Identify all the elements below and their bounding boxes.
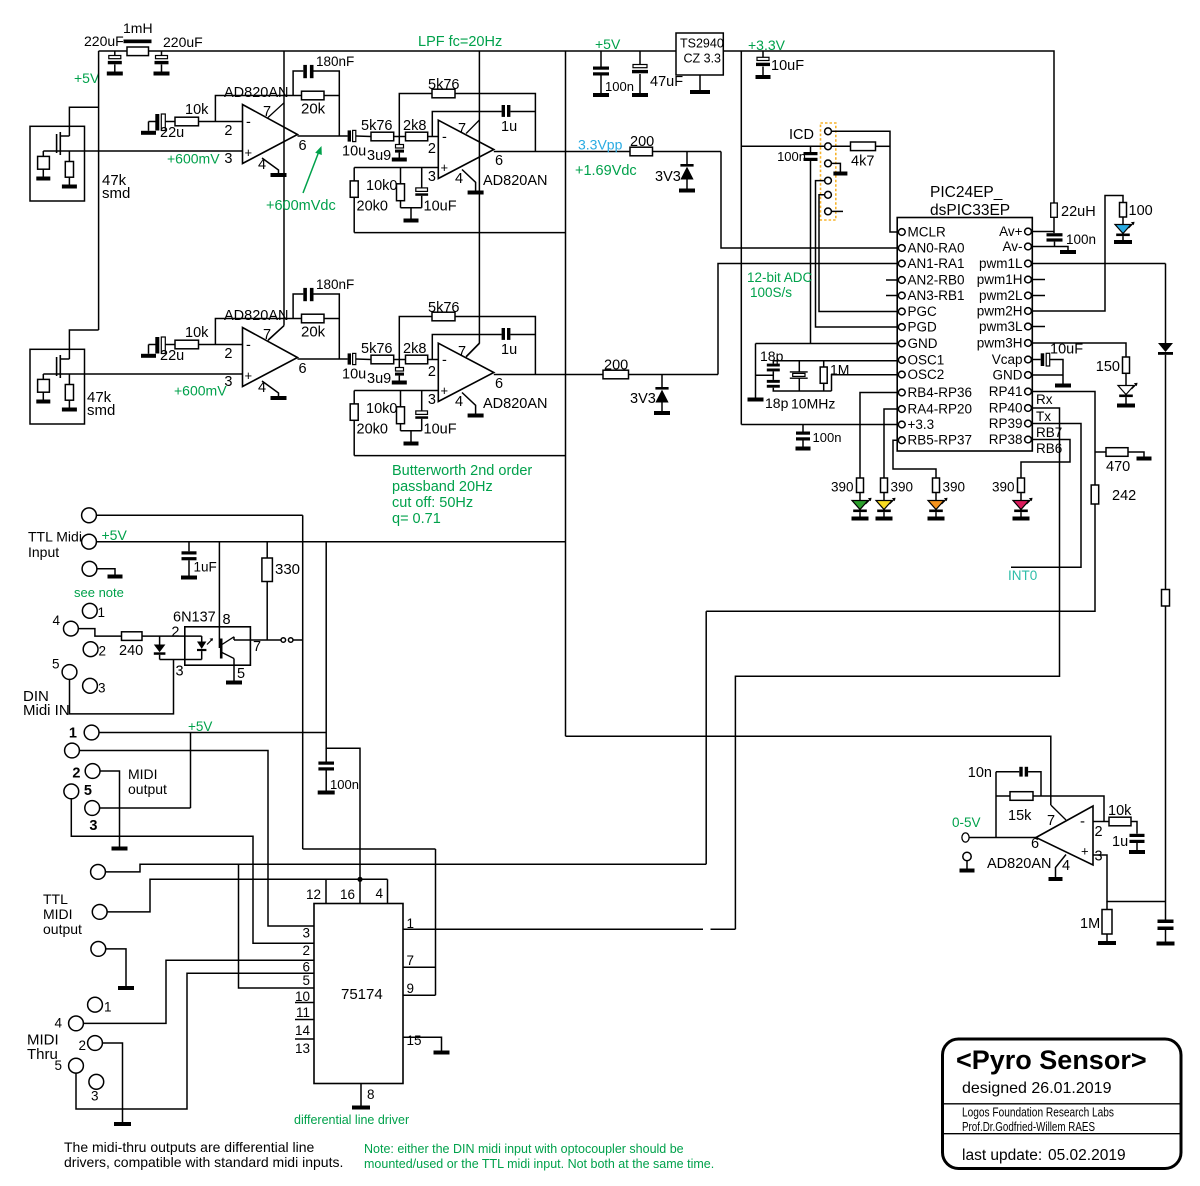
svg-text:16: 16 xyxy=(340,887,355,902)
svg-text:100n: 100n xyxy=(330,777,359,792)
svg-text:TTL: TTL xyxy=(43,891,68,907)
svg-text:PIC24EP_: PIC24EP_ xyxy=(930,184,1003,201)
svg-text:AD820AN: AD820AN xyxy=(483,396,547,412)
svg-text:10: 10 xyxy=(295,989,310,1004)
svg-text:Vcap: Vcap xyxy=(992,352,1023,367)
svg-text:2: 2 xyxy=(1095,824,1103,840)
svg-text:RB7: RB7 xyxy=(1036,425,1062,440)
svg-text:390: 390 xyxy=(992,480,1015,495)
svg-text:cut off: 50Hz: cut off: 50Hz xyxy=(392,495,473,511)
svg-text:10k0: 10k0 xyxy=(366,401,397,417)
svg-text:390: 390 xyxy=(831,480,854,495)
svg-text:12: 12 xyxy=(306,887,321,902)
svg-text:+600mV: +600mV xyxy=(167,151,220,167)
svg-text:10uF: 10uF xyxy=(771,58,804,74)
svg-text:3: 3 xyxy=(428,392,436,408)
svg-text:CZ 3.3: CZ 3.3 xyxy=(684,52,722,66)
svg-text:ICD: ICD xyxy=(789,127,814,143)
svg-text:1: 1 xyxy=(98,605,106,620)
svg-text:180nF: 180nF xyxy=(316,54,354,69)
svg-text:15k: 15k xyxy=(1008,808,1032,824)
svg-text:7: 7 xyxy=(458,121,466,137)
svg-text:5: 5 xyxy=(84,783,92,799)
svg-text:3: 3 xyxy=(89,818,97,834)
svg-text:OSC2: OSC2 xyxy=(908,367,945,382)
svg-text:10k: 10k xyxy=(1108,803,1132,819)
svg-text:drivers, compatible with stand: drivers, compatible with standard midi i… xyxy=(64,1154,343,1170)
svg-text:4: 4 xyxy=(375,886,383,901)
svg-text:15: 15 xyxy=(407,1033,422,1048)
svg-text:10uF: 10uF xyxy=(424,422,457,438)
svg-text:8: 8 xyxy=(223,612,231,628)
svg-text:+600mVdc: +600mVdc xyxy=(266,198,336,214)
svg-text:+1.69Vdc: +1.69Vdc xyxy=(575,163,637,179)
svg-text:pwm1H: pwm1H xyxy=(977,272,1023,287)
svg-text:3: 3 xyxy=(224,151,232,167)
svg-text:differential line driver: differential line driver xyxy=(294,1113,409,1127)
svg-text:-: - xyxy=(246,338,251,354)
svg-text:2: 2 xyxy=(224,123,232,139)
svg-text:1mH: 1mH xyxy=(123,20,153,36)
svg-text:5k76: 5k76 xyxy=(428,300,459,316)
svg-text:3: 3 xyxy=(91,1089,99,1104)
svg-text:13: 13 xyxy=(295,1041,310,1056)
svg-text:AN3-RB1: AN3-RB1 xyxy=(908,288,965,303)
svg-text:AD820AN: AD820AN xyxy=(224,308,288,324)
svg-text:4: 4 xyxy=(455,171,463,187)
svg-text:RP38: RP38 xyxy=(989,432,1023,447)
svg-text:10u: 10u xyxy=(342,367,366,383)
svg-text:RP39: RP39 xyxy=(989,416,1023,431)
svg-text:pwm2L: pwm2L xyxy=(979,288,1023,303)
svg-text:3: 3 xyxy=(302,926,310,941)
svg-text:7: 7 xyxy=(458,344,466,360)
svg-text:GND: GND xyxy=(993,368,1023,383)
svg-text:AN1-RA1: AN1-RA1 xyxy=(908,256,965,271)
svg-text:18p: 18p xyxy=(765,395,789,411)
svg-text:9: 9 xyxy=(407,981,415,996)
svg-text:390: 390 xyxy=(943,480,966,495)
svg-text:4: 4 xyxy=(52,613,60,628)
svg-text:last update:: last update: xyxy=(962,1147,1042,1164)
svg-text:MIDI: MIDI xyxy=(128,766,158,782)
svg-text:TTL Midi: TTL Midi xyxy=(28,529,82,545)
svg-text:7: 7 xyxy=(263,327,271,343)
svg-text:RB6: RB6 xyxy=(1036,441,1062,456)
svg-text:10uF: 10uF xyxy=(424,199,457,215)
svg-text:1: 1 xyxy=(407,916,415,931)
svg-text:6: 6 xyxy=(299,361,307,377)
svg-text:+: + xyxy=(245,368,253,383)
svg-text:MCLR: MCLR xyxy=(908,225,947,240)
svg-text:100n: 100n xyxy=(777,149,806,164)
svg-text:Rx: Rx xyxy=(1036,392,1053,407)
svg-text:2k8: 2k8 xyxy=(403,341,426,357)
svg-text:100n: 100n xyxy=(813,430,842,445)
svg-text:10k0: 10k0 xyxy=(366,178,397,194)
svg-text:LPF fc=20Hz: LPF fc=20Hz xyxy=(418,34,502,50)
svg-text:+600mV: +600mV xyxy=(174,383,227,399)
svg-text:6N137: 6N137 xyxy=(173,610,216,626)
svg-text:TS2940: TS2940 xyxy=(680,37,724,51)
svg-text:1u: 1u xyxy=(501,342,517,358)
svg-text:20k0: 20k0 xyxy=(357,199,388,215)
svg-text:RB5-RP37: RB5-RP37 xyxy=(908,433,973,448)
svg-text:100S/s: 100S/s xyxy=(750,285,792,300)
svg-text:+: + xyxy=(441,160,449,175)
svg-text:1M: 1M xyxy=(1080,916,1100,932)
svg-text:see note: see note xyxy=(74,585,124,600)
svg-text:240: 240 xyxy=(119,643,143,659)
svg-text:1: 1 xyxy=(69,726,77,742)
svg-text:MIDI: MIDI xyxy=(43,906,73,922)
svg-text:18p: 18p xyxy=(760,348,784,364)
svg-text:3: 3 xyxy=(176,664,184,680)
svg-text:PGD: PGD xyxy=(908,320,938,335)
svg-text:5k76: 5k76 xyxy=(428,77,459,93)
svg-text:20k0: 20k0 xyxy=(357,422,388,438)
svg-text:2: 2 xyxy=(171,625,179,641)
svg-text:RP40: RP40 xyxy=(989,401,1023,416)
svg-text:passband 20Hz: passband 20Hz xyxy=(392,479,493,495)
svg-text:-: - xyxy=(246,115,251,131)
svg-text:10k: 10k xyxy=(185,102,209,118)
svg-text:1uF: 1uF xyxy=(194,560,217,575)
svg-text:GND: GND xyxy=(908,336,938,351)
svg-text:2: 2 xyxy=(428,364,436,380)
svg-text:3u9: 3u9 xyxy=(367,371,391,387)
svg-text:5: 5 xyxy=(52,657,60,672)
svg-text:+3.3V: +3.3V xyxy=(748,37,786,53)
svg-text:<Pyro Sensor>: <Pyro Sensor> xyxy=(956,1045,1147,1075)
svg-text:5k76: 5k76 xyxy=(361,118,392,134)
svg-text:1M: 1M xyxy=(830,362,849,378)
svg-text:150: 150 xyxy=(1096,359,1120,375)
svg-text:AD820AN: AD820AN xyxy=(987,856,1051,872)
svg-text:4: 4 xyxy=(455,394,463,410)
svg-text:q= 0.71: q= 0.71 xyxy=(392,511,441,527)
svg-text:12-bit ADC: 12-bit ADC xyxy=(747,270,813,285)
svg-text:INT0: INT0 xyxy=(1008,568,1037,583)
svg-text:Input: Input xyxy=(28,544,59,560)
svg-text:10u: 10u xyxy=(342,144,366,160)
svg-text:10MHz: 10MHz xyxy=(791,396,835,412)
svg-text:220uF: 220uF xyxy=(163,34,203,50)
svg-text:1u: 1u xyxy=(501,119,517,135)
svg-text:pwm3H: pwm3H xyxy=(977,336,1023,351)
svg-text:Thru: Thru xyxy=(27,1046,58,1063)
svg-text:Midi IN: Midi IN xyxy=(23,702,70,719)
svg-text:100n: 100n xyxy=(1066,232,1096,247)
svg-text:22u: 22u xyxy=(160,348,184,364)
svg-text:Butterworth 2nd order: Butterworth 2nd order xyxy=(392,463,532,479)
svg-text:-: - xyxy=(442,353,447,369)
svg-text:AN2-RB0: AN2-RB0 xyxy=(908,273,965,288)
svg-text:3V3: 3V3 xyxy=(655,169,681,185)
svg-text:RB4-RP36: RB4-RP36 xyxy=(908,385,973,400)
svg-text:200: 200 xyxy=(604,358,628,374)
svg-text:6: 6 xyxy=(1031,836,1039,852)
svg-text:smd: smd xyxy=(102,185,130,202)
svg-text:PGC: PGC xyxy=(908,304,938,319)
svg-text:7: 7 xyxy=(253,639,261,655)
svg-text:+3.3: +3.3 xyxy=(908,417,935,432)
svg-text:2: 2 xyxy=(78,1038,86,1053)
svg-text:10n: 10n xyxy=(968,765,992,781)
svg-text:5k76: 5k76 xyxy=(361,341,392,357)
svg-text:Prof.Dr.Godfried-Willem RAES: Prof.Dr.Godfried-Willem RAES xyxy=(962,1119,1095,1134)
svg-text:180nF: 180nF xyxy=(316,277,354,292)
svg-text:390: 390 xyxy=(891,480,914,495)
svg-text:22u: 22u xyxy=(160,125,184,141)
svg-text:7: 7 xyxy=(1047,813,1055,829)
svg-text:AD820AN: AD820AN xyxy=(483,173,547,189)
svg-text:5: 5 xyxy=(302,973,310,988)
svg-text:1u: 1u xyxy=(1112,834,1128,850)
svg-text:14: 14 xyxy=(295,1023,311,1038)
svg-text:2: 2 xyxy=(428,141,436,157)
svg-text:242: 242 xyxy=(1112,488,1136,504)
svg-text:+: + xyxy=(1081,844,1089,859)
svg-text:pwm2H: pwm2H xyxy=(977,304,1023,319)
svg-text:2: 2 xyxy=(99,644,107,659)
svg-text:AD820AN: AD820AN xyxy=(224,85,288,101)
svg-text:6: 6 xyxy=(299,138,307,154)
svg-text:330: 330 xyxy=(275,561,300,578)
svg-text:4: 4 xyxy=(1062,858,1070,874)
svg-text:3: 3 xyxy=(428,169,436,185)
svg-text:05.02.2019: 05.02.2019 xyxy=(1048,1147,1126,1164)
svg-text:2: 2 xyxy=(224,346,232,362)
svg-text:Logos Foundation Research Labs: Logos Foundation Research Labs xyxy=(962,1105,1114,1120)
svg-text:output: output xyxy=(128,781,167,797)
svg-text:0-5V: 0-5V xyxy=(952,815,981,830)
svg-text:6: 6 xyxy=(495,376,503,392)
svg-text:pwm1L: pwm1L xyxy=(979,256,1023,271)
svg-text:The midi-thru outputs are diff: The midi-thru outputs are differential l… xyxy=(64,1139,315,1155)
svg-text:mounted/used or the TTL midi i: mounted/used or the TTL midi input. Not … xyxy=(364,1157,714,1171)
svg-text:2k8: 2k8 xyxy=(403,118,426,134)
svg-text:+: + xyxy=(441,383,449,398)
svg-text:Av+: Av+ xyxy=(999,224,1023,239)
svg-text:100: 100 xyxy=(1129,203,1153,219)
svg-text:-: - xyxy=(442,130,447,146)
svg-text:4: 4 xyxy=(54,1016,62,1031)
svg-text:8: 8 xyxy=(367,1087,375,1102)
svg-text:7: 7 xyxy=(407,953,415,968)
svg-text:2: 2 xyxy=(72,766,80,782)
svg-text:470: 470 xyxy=(1106,459,1130,475)
svg-text:+5V: +5V xyxy=(595,36,621,52)
svg-text:OSC1: OSC1 xyxy=(908,353,945,368)
svg-text:4k7: 4k7 xyxy=(851,154,874,170)
svg-text:10k: 10k xyxy=(185,325,209,341)
svg-text:100n: 100n xyxy=(605,79,634,94)
svg-text:3: 3 xyxy=(98,681,106,696)
svg-text:+5V: +5V xyxy=(188,719,212,734)
svg-text:1: 1 xyxy=(104,1000,112,1015)
svg-text:+5V: +5V xyxy=(102,527,128,543)
svg-text:+5V: +5V xyxy=(74,70,100,86)
svg-text:3.3Vpp: 3.3Vpp xyxy=(578,137,623,153)
svg-text:dsPIC33EP_: dsPIC33EP_ xyxy=(930,202,1019,219)
svg-text:+: + xyxy=(245,145,253,160)
svg-text:smd: smd xyxy=(87,402,115,419)
svg-text:-: - xyxy=(1080,813,1085,830)
svg-text:75174: 75174 xyxy=(341,986,383,1003)
svg-text:20k: 20k xyxy=(301,324,326,341)
svg-text:3: 3 xyxy=(1095,849,1103,865)
svg-text:5: 5 xyxy=(237,666,245,682)
svg-text:3u9: 3u9 xyxy=(367,148,391,164)
svg-text:20k: 20k xyxy=(301,101,326,118)
svg-text:3V3: 3V3 xyxy=(630,391,656,407)
svg-text:RP41: RP41 xyxy=(989,384,1023,399)
svg-text:designed 26.01.2019: designed 26.01.2019 xyxy=(962,1080,1112,1097)
svg-text:22uH: 22uH xyxy=(1061,204,1096,220)
svg-text:200: 200 xyxy=(630,134,654,150)
svg-text:10uF: 10uF xyxy=(1050,342,1083,358)
svg-text:AN0-RA0: AN0-RA0 xyxy=(908,241,965,256)
svg-text:11: 11 xyxy=(296,1005,310,1020)
svg-text:2: 2 xyxy=(302,943,310,958)
svg-text:220uF: 220uF xyxy=(84,33,124,49)
svg-text:Av-: Av- xyxy=(1002,239,1022,254)
svg-text:Tx: Tx xyxy=(1036,409,1051,424)
svg-text:47uF: 47uF xyxy=(650,74,683,90)
svg-text:7: 7 xyxy=(263,104,271,120)
svg-text:output: output xyxy=(43,921,82,937)
svg-text:pwm3L: pwm3L xyxy=(979,319,1023,334)
svg-text:Note: either the DIN midi inpu: Note: either the DIN midi input with opt… xyxy=(364,1142,684,1156)
svg-text:6: 6 xyxy=(495,153,503,169)
svg-text:RA4-RP20: RA4-RP20 xyxy=(908,402,973,417)
